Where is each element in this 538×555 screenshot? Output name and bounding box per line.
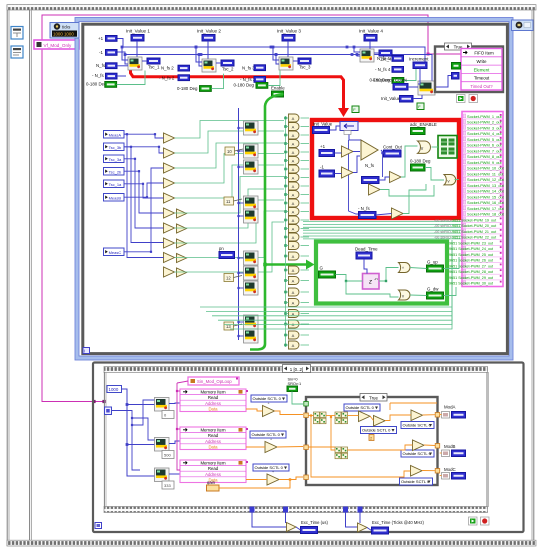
svg-text:Exc_Time (Ticks @40 MHz): Exc_Time (Ticks @40 MHz) — [372, 520, 424, 525]
svg-text:Socket-PWM_18_out: Socket-PWM_18_out — [467, 212, 505, 217]
wire subVI 2 to Tsc_2 — [216, 62, 221, 64]
svg-text:Socket-PWM_8_out: Socket-PWM_8_out — [467, 154, 503, 159]
conversion gate A19 — [289, 277, 300, 285]
svg-text:Socket-PWM_14_out: Socket-PWM_14_out — [467, 189, 505, 194]
svg-text:Sin_Mod_OpLoop: Sin_Mod_OpLoop — [197, 379, 232, 384]
local variable Vf_Mod_Only — [34, 40, 79, 49]
conversion gate A2 — [289, 123, 300, 131]
wire trunk to subVI 5 — [239, 215, 244, 217]
svg-text:Init_Value 1: Init_Value 1 — [126, 29, 150, 34]
wire dead_time to z — [364, 259, 367, 274]
gate - N_fs compare — [392, 208, 404, 219]
svg-text:12: 12 — [226, 276, 231, 281]
svg-text:Element: Element — [474, 67, 491, 72]
case structure FIFO write (True) — [435, 47, 503, 93]
svg-text:FIFO Item: FIFO Item — [474, 51, 494, 56]
wire Init_Value 3 to subVI — [287, 41, 289, 57]
converter triangle 6 — [164, 208, 175, 218]
IO node Socket-PWM_21_out — [463, 227, 502, 229]
IO node Socket-PWM_30_out — [463, 279, 502, 281]
svg-text:A: A — [292, 268, 295, 273]
subVI generator 10 — [244, 329, 259, 343]
IO node Socket-PWM_12_out — [463, 175, 502, 177]
svg-text:Outside SCTL 0: Outside SCTL 0 — [403, 423, 432, 428]
subVI generator 7 — [244, 266, 259, 280]
wire init_value to subVI — [413, 95, 422, 99]
wire exc1 — [252, 513, 287, 528]
svg-text:Outside SCTL 0: Outside SCTL 0 — [362, 428, 391, 433]
constant addr 3 — [162, 481, 174, 489]
svg-text:A: A — [292, 290, 295, 295]
converter triangle 8 — [164, 238, 175, 248]
IO node Socket-PWM_3_out — [463, 124, 502, 126]
subVI generator 5 — [244, 209, 259, 223]
memory item node 2 — [180, 427, 246, 450]
conversion gate A17 — [289, 252, 300, 260]
svg-text:SROv:1: SROv:1 — [288, 381, 302, 386]
local variable Tsc_3b — [104, 143, 125, 151]
wire orange data paths — [246, 409, 263, 411]
wire gate A3 out — [301, 134, 310, 136]
constant 0 timeout — [452, 73, 460, 80]
svg-text:Socket-PWM_2_out: Socket-PWM_2_out — [467, 120, 503, 125]
conversion gate A25 — [289, 341, 300, 349]
conversion gate A4 — [289, 140, 300, 148]
clock dropdown Outside SCTL 1 — [251, 395, 287, 402]
tunnel green enable2 — [304, 402, 309, 407]
wire gate A10 out — [301, 194, 310, 196]
svg-text:-1: -1 — [320, 165, 324, 170]
stacked sequence film top — [104, 367, 488, 373]
case selector True 2 — [360, 394, 387, 402]
svg-text:Socket-PWM_9_out: Socket-PWM_9_out — [467, 160, 503, 165]
wire 0-180 Deg 3 — [268, 71, 280, 86]
conversion gate A1 — [289, 114, 300, 122]
svg-text:Outside SCTL 0: Outside SCTL 0 — [346, 405, 375, 410]
wire exc2 — [346, 513, 358, 528]
stacked sequence side borders — [103, 372, 105, 507]
wire gate A8 out — [301, 177, 310, 179]
svg-text:Dead_Time: Dead_Time — [355, 247, 378, 252]
constant 32 element — [452, 63, 461, 70]
conversion gate A8 — [289, 174, 300, 182]
svg-text:A: A — [292, 125, 295, 130]
terminal Tsc_2 — [221, 60, 234, 66]
register icon F1 — [352, 106, 359, 113]
timed loop inner gray border — [83, 24, 508, 353]
wire ModC — [440, 475, 442, 477]
wire subVI to fifo case — [435, 76, 453, 88]
gate mid inner — [369, 184, 381, 195]
wire trunk to subVI 1 — [239, 127, 244, 129]
conversion gate A6 — [289, 157, 300, 165]
clock dropdown Outside SCTL 3 — [253, 464, 289, 471]
svg-text:Vf_Mod_Only: Vf_Mod_Only — [44, 43, 73, 48]
wire gate A19 out — [301, 280, 310, 282]
svg-text:Socket-PWM_11_out: Socket-PWM_11_out — [467, 171, 504, 176]
svg-text:Tsc_1a: Tsc_1a — [109, 182, 122, 187]
svg-text:Socket-PWM_4_out: Socket-PWM_4_out — [467, 131, 503, 136]
memory item node 3 — [180, 460, 246, 483]
converter triangle second stage 2 — [177, 224, 187, 233]
svg-text:- N_fs 4: - N_fs 4 — [375, 67, 391, 72]
gate modulation 1 — [263, 406, 275, 417]
wire gate A11 out — [301, 202, 310, 204]
svg-text:A: A — [292, 333, 295, 338]
svg-text:Address: Address — [205, 472, 221, 477]
gate N_fs compare — [390, 172, 402, 183]
FIFO write property node — [461, 49, 502, 91]
wire 0-180 Deg 1 — [117, 71, 145, 85]
wire - N_fs compare — [376, 214, 392, 216]
svg-text:0-180 Deg 3: 0-180 Deg 3 — [234, 83, 259, 88]
wire gate A12 out — [301, 211, 310, 213]
wire N_fs compare — [379, 177, 390, 180]
svg-text:-n: -n — [374, 276, 378, 281]
IO node Socket-PWM_29_out — [463, 273, 502, 275]
local variable Tsc_2b — [104, 168, 125, 176]
subVI generator 2 — [244, 144, 259, 158]
wire bottom blue trunk — [122, 389, 156, 476]
svg-text:Tsc_3a: Tsc_3a — [109, 157, 122, 162]
IO node Socket-PWM_7_out — [463, 147, 502, 149]
constant addr 2 — [162, 451, 174, 459]
converter triangle 10 — [164, 267, 175, 277]
FPGA IO property node column — [462, 112, 503, 287]
gate select lower — [444, 175, 456, 185]
svg-text:Tsc_1: Tsc_1 — [148, 65, 160, 70]
svg-text:500: 500 — [164, 453, 171, 458]
svg-text:Timeout: Timeout — [474, 76, 490, 81]
wire constant n3 — [234, 276, 243, 278]
wire inner teal mesh — [401, 146, 418, 177]
IO node Socket-PWM_16_out — [463, 198, 502, 200]
IO node Socket-PWM_1_out — [463, 114, 466, 118]
outer sequence bottom film-strip border — [7, 540, 536, 546]
svg-text:11: 11 — [226, 199, 231, 204]
subVI phase generator 2 — [202, 59, 216, 72]
IO node Socket-PWM_24_out — [463, 244, 502, 246]
svg-text:-00 sbRIO-9651 Socket-PWM_21_o: -00 sbRIO-9651 Socket-PWM_21_out — [434, 230, 496, 234]
svg-text:- N_fs: - N_fs — [358, 206, 371, 211]
wire row1 long bus B — [117, 52, 432, 83]
wire gate A22 out — [301, 313, 310, 315]
timed loop border — [77, 20, 511, 359]
svg-text:N_fs 3: N_fs 3 — [242, 65, 255, 70]
svg-text:A: A — [292, 201, 295, 206]
svg-text:Init_Value 4: Init_Value 4 — [359, 29, 383, 34]
wire gate A6 out — [301, 160, 310, 162]
svg-text:G_up: G_up — [427, 260, 438, 265]
wire or to array — [432, 146, 439, 148]
svg-text:ModA: ModA — [444, 405, 456, 410]
svg-text:9651 Socket-PWM_23_out: 9651 Socket-PWM_23_out — [449, 241, 493, 245]
wire enable thick green — [250, 94, 284, 350]
svg-text:9651 Socket-PWM_28_out: 9651 Socket-PWM_28_out — [449, 270, 493, 274]
wire magenta memory trunk — [177, 383, 180, 470]
local variable MeasC — [104, 248, 125, 256]
svg-text:+: + — [272, 470, 274, 474]
wire converter outputs — [175, 121, 285, 139]
outer sequence top film-strip border — [7, 5, 536, 10]
conversion gate A13 — [289, 216, 300, 224]
wire trunk to subVI 2 — [239, 150, 244, 152]
subVI address generator 3 — [155, 468, 170, 482]
IO node Socket-PWM_4_out — [463, 129, 502, 131]
constant 2 orange — [369, 435, 374, 441]
wire subVI 4 to Tsc_4 — [374, 52, 379, 54]
svg-text:MeasB: MeasB — [109, 195, 122, 200]
svg-text:N_fs 4: N_fs 4 — [377, 56, 390, 61]
memory item node 1 — [180, 389, 246, 412]
wire Init_Value 1 to subVI — [136, 41, 138, 57]
gate min — [399, 290, 411, 300]
wire trunk to subVI 9 — [239, 321, 244, 323]
svg-text:Init_Value: Init_Value — [313, 122, 333, 127]
wire trunk to subVI 3 — [239, 166, 244, 168]
subVI generator 9 — [244, 315, 259, 329]
svg-text:Socket-PWM_15_out: Socket-PWM_15_out — [467, 194, 505, 199]
wire bus taps unit 4 — [354, 47, 360, 52]
svg-text:Exc_Time (us): Exc_Time (us) — [301, 520, 328, 525]
svg-text:ModC: ModC — [444, 467, 456, 472]
subVI address generator 2 — [155, 438, 170, 452]
svg-text:Outside SCTL 0: Outside SCTL 0 — [401, 479, 430, 484]
svg-text:pn: pn — [219, 246, 224, 251]
IO node Socket-PWM_25_out — [463, 250, 502, 252]
wire gate A25 out — [301, 344, 310, 346]
svg-text:9651 Socket-PWM_30_out: 9651 Socket-PWM_30_out — [449, 282, 493, 286]
bottom structure frame — [93, 363, 524, 533]
svg-text:adc_ENABLE: adc_ENABLE — [410, 122, 437, 127]
svg-text:Address: Address — [205, 439, 221, 444]
gate exc2 — [358, 523, 368, 532]
wire gate A21 out — [301, 302, 310, 304]
svg-text:i: i — [84, 349, 85, 354]
converter triangle 3 — [164, 163, 175, 173]
svg-text:Socket-PWM_17_out: Socket-PWM_17_out — [467, 206, 505, 211]
subVI generator 8 — [244, 281, 259, 295]
svg-text:A: A — [292, 150, 295, 155]
svg-text:Outside SCTL 0: Outside SCTL 0 — [255, 465, 284, 470]
svg-text:Tsc_2: Tsc_2 — [222, 67, 234, 72]
svg-text:10: 10 — [227, 149, 232, 154]
icon stop condition 2 — [481, 517, 490, 525]
wire bus taps unit 2 — [196, 47, 202, 62]
converter triangle 7 — [164, 223, 175, 233]
wire trunk to subVI 7 — [239, 272, 244, 274]
converter triangle 4 — [164, 178, 175, 188]
gate or adc — [418, 141, 431, 153]
wire Init_Value 4 to subVI — [369, 41, 371, 49]
svg-text:A: A — [292, 279, 295, 284]
svg-text:9651 Socket-PWM_25_out: 9651 Socket-PWM_25_out — [449, 253, 493, 257]
svg-text:N_fs: N_fs — [96, 63, 106, 68]
clock dropdown Outside SCTL 2 — [250, 431, 286, 438]
svg-text:1 [0..2]: 1 [0..2] — [290, 367, 303, 372]
wire G_up out — [444, 257, 460, 269]
IO node Socket-PWM_17_out — [463, 204, 502, 206]
subVI phase generator 4 — [360, 49, 374, 62]
wire gate trunk — [285, 116, 287, 347]
svg-text:Init_Value: Init_Value — [381, 96, 401, 101]
subVI phase generator 1 — [128, 57, 142, 70]
multiplier bank C — [335, 447, 341, 453]
wire gates to compound — [353, 151, 360, 153]
icon loop timer 2 — [469, 517, 478, 525]
IO node Socket-PWM_22_out — [463, 233, 502, 235]
IO node Socket-PWM_23_out — [463, 239, 502, 241]
IO node Socket-PWM_11_out — [463, 170, 502, 172]
IO node Socket-PWM_18_out — [463, 210, 502, 212]
svg-text:Init_Value 3: Init_Value 3 — [277, 29, 301, 34]
wire socket bundle lower — [200, 240, 452, 307]
wire constant n2 — [234, 199, 243, 201]
svg-text:Socket-PWM_16_out: Socket-PWM_16_out — [467, 200, 505, 205]
wire gate A20 out — [301, 291, 310, 293]
converter triangle second stage 1 — [177, 209, 187, 218]
svg-text:Outside SCTL 0: Outside SCTL 0 — [403, 451, 432, 456]
svg-text:Socket-PWM_6_out: Socket-PWM_6_out — [467, 143, 503, 148]
svg-text:G_dw: G_dw — [427, 287, 439, 292]
converter triangle second stage 3 — [177, 239, 187, 248]
wire gate A15 out — [301, 236, 310, 238]
wire element — [460, 65, 463, 67]
svg-text:N_fs: N_fs — [365, 163, 375, 168]
wire increment to subVI — [418, 69, 420, 85]
wire G_dw out — [444, 287, 457, 296]
timed loop output node — [512, 20, 534, 31]
wire init feedback — [330, 126, 341, 130]
svg-text:A: A — [292, 244, 295, 249]
svg-text:-00 sbRIO-9651 Socket-PWM_22_o: -00 sbRIO-9651 Socket-PWM_22_out — [434, 236, 496, 240]
wire SROv to case — [292, 392, 303, 405]
converter triangle 1 — [164, 133, 175, 143]
wire trunk to subVI 4 — [239, 202, 244, 204]
svg-text:Write: Write — [477, 59, 488, 64]
gate max — [399, 263, 411, 273]
converter triangle second stage 5 — [177, 268, 187, 277]
svg-text:9651 Socket-PWM_26_out: 9651 Socket-PWM_26_out — [449, 259, 493, 263]
wire +1 gate — [335, 152, 342, 154]
local variable MeasB — [104, 194, 125, 202]
wire green arrow branch to dead-time — [265, 263, 306, 266]
svg-text:Read: Read — [208, 395, 219, 400]
svg-text:ticks: ticks — [62, 25, 70, 30]
wire subVI 3 to Tsc_3 — [293, 60, 298, 62]
svg-text:A: A — [292, 218, 295, 223]
conversion gate A9 — [289, 182, 300, 190]
conversion gate A10 — [289, 191, 300, 199]
wire gate A14 out — [301, 228, 310, 230]
stacked sequence film bottom — [104, 507, 488, 513]
wire local variable mesh — [124, 134, 164, 257]
svg-text:Memory Item: Memory Item — [200, 461, 225, 466]
subVI address generator 1 — [155, 398, 170, 412]
svg-text:1000: 1000 — [109, 387, 119, 392]
timing VI wait-msec icon — [11, 46, 23, 58]
IO node Socket-PWM_6_out — [463, 141, 502, 143]
wire Init_Value 2 to subVI — [207, 41, 209, 59]
svg-text:A: A — [292, 116, 295, 121]
subVI generator 3 — [244, 160, 259, 174]
compound select node — [361, 140, 378, 160]
svg-text:9651 Socket-PWM_29_out: 9651 Socket-PWM_29_out — [449, 276, 493, 280]
gate modulation 3 — [267, 474, 279, 485]
wire gate A1 out — [301, 117, 310, 119]
IO node Socket-PWM_5_out — [463, 135, 502, 137]
svg-text:Read: Read — [208, 433, 219, 438]
conversion gate A5 — [289, 148, 300, 156]
svg-text:Read: Read — [208, 466, 219, 471]
conversion gate A11 — [289, 199, 300, 207]
wire trunk to subVI 6 — [239, 257, 244, 259]
sequence selector 1 [0..2] — [283, 365, 311, 373]
wire gate A13 out — [301, 219, 310, 221]
conversion gate A20 — [289, 288, 300, 296]
wire gate A5 out — [301, 151, 310, 153]
wire row1 long bus A — [117, 39, 425, 63]
svg-text:Timed Out?: Timed Out? — [470, 84, 493, 89]
svg-text:Data: Data — [208, 444, 218, 449]
icon loop timer — [457, 95, 466, 103]
wire frequency count to subVI — [408, 86, 418, 88]
svg-text:Tsc_3b: Tsc_3b — [109, 145, 122, 150]
svg-text:+1: +1 — [320, 144, 326, 149]
IO node Socket-PWM_8_out — [463, 152, 502, 154]
subVI phase generator 3 — [279, 57, 293, 70]
wire socket bundle upper — [303, 221, 461, 223]
svg-text:0-180 Deg 2: 0-180 Deg 2 — [177, 86, 202, 91]
svg-text:Socket-PWM_13_out: Socket-PWM_13_out — [467, 183, 505, 188]
wire case orange mesh — [308, 415, 313, 417]
svg-text:A: A — [292, 184, 295, 189]
red arrowhead — [338, 108, 349, 117]
IO node Socket-PWM_27_out — [463, 262, 502, 264]
svg-text:Memory Item: Memory Item — [200, 390, 225, 395]
conversion gate A16 — [289, 242, 300, 250]
conversion gate A22 — [289, 310, 300, 318]
svg-text:A: A — [292, 176, 295, 181]
svg-text:A: A — [292, 142, 295, 147]
wire N_fs 1 — [117, 65, 128, 67]
IO node Socket-PWM_19_out — [463, 216, 502, 218]
wire ModA — [440, 414, 442, 416]
IO node Socket-PWM_10_out — [463, 164, 502, 166]
svg-text:Tsc_2b: Tsc_2b — [109, 169, 122, 174]
svg-text:Address: Address — [205, 401, 221, 406]
subVI generator 1 — [244, 121, 259, 135]
gate exc1 — [287, 523, 297, 532]
svg-text:A: A — [292, 227, 295, 232]
wire gate A16 out — [301, 245, 310, 247]
array build icon — [438, 136, 457, 159]
feedback node z-1 — [363, 274, 380, 290]
conversion gate A14 — [289, 225, 300, 233]
svg-text:1000 1000: 1000 1000 — [53, 32, 74, 37]
converter triangle 2 — [164, 148, 175, 158]
wire compound to Cont_Out — [381, 150, 384, 153]
svg-text:0-180 Deg: 0-180 Deg — [86, 82, 107, 87]
svg-text:Socket-PWM_1_out: Socket-PWM_1_out — [467, 114, 503, 119]
multiplier bank B — [335, 412, 341, 418]
svg-text:z: z — [368, 280, 372, 286]
IO node Socket-PWM_20_out — [463, 221, 502, 223]
wire gate A7 out — [301, 168, 310, 170]
wire gate A17 out — [301, 255, 310, 257]
wire bus taps unit 3 — [273, 47, 279, 60]
tunnel orange in — [304, 413, 309, 418]
